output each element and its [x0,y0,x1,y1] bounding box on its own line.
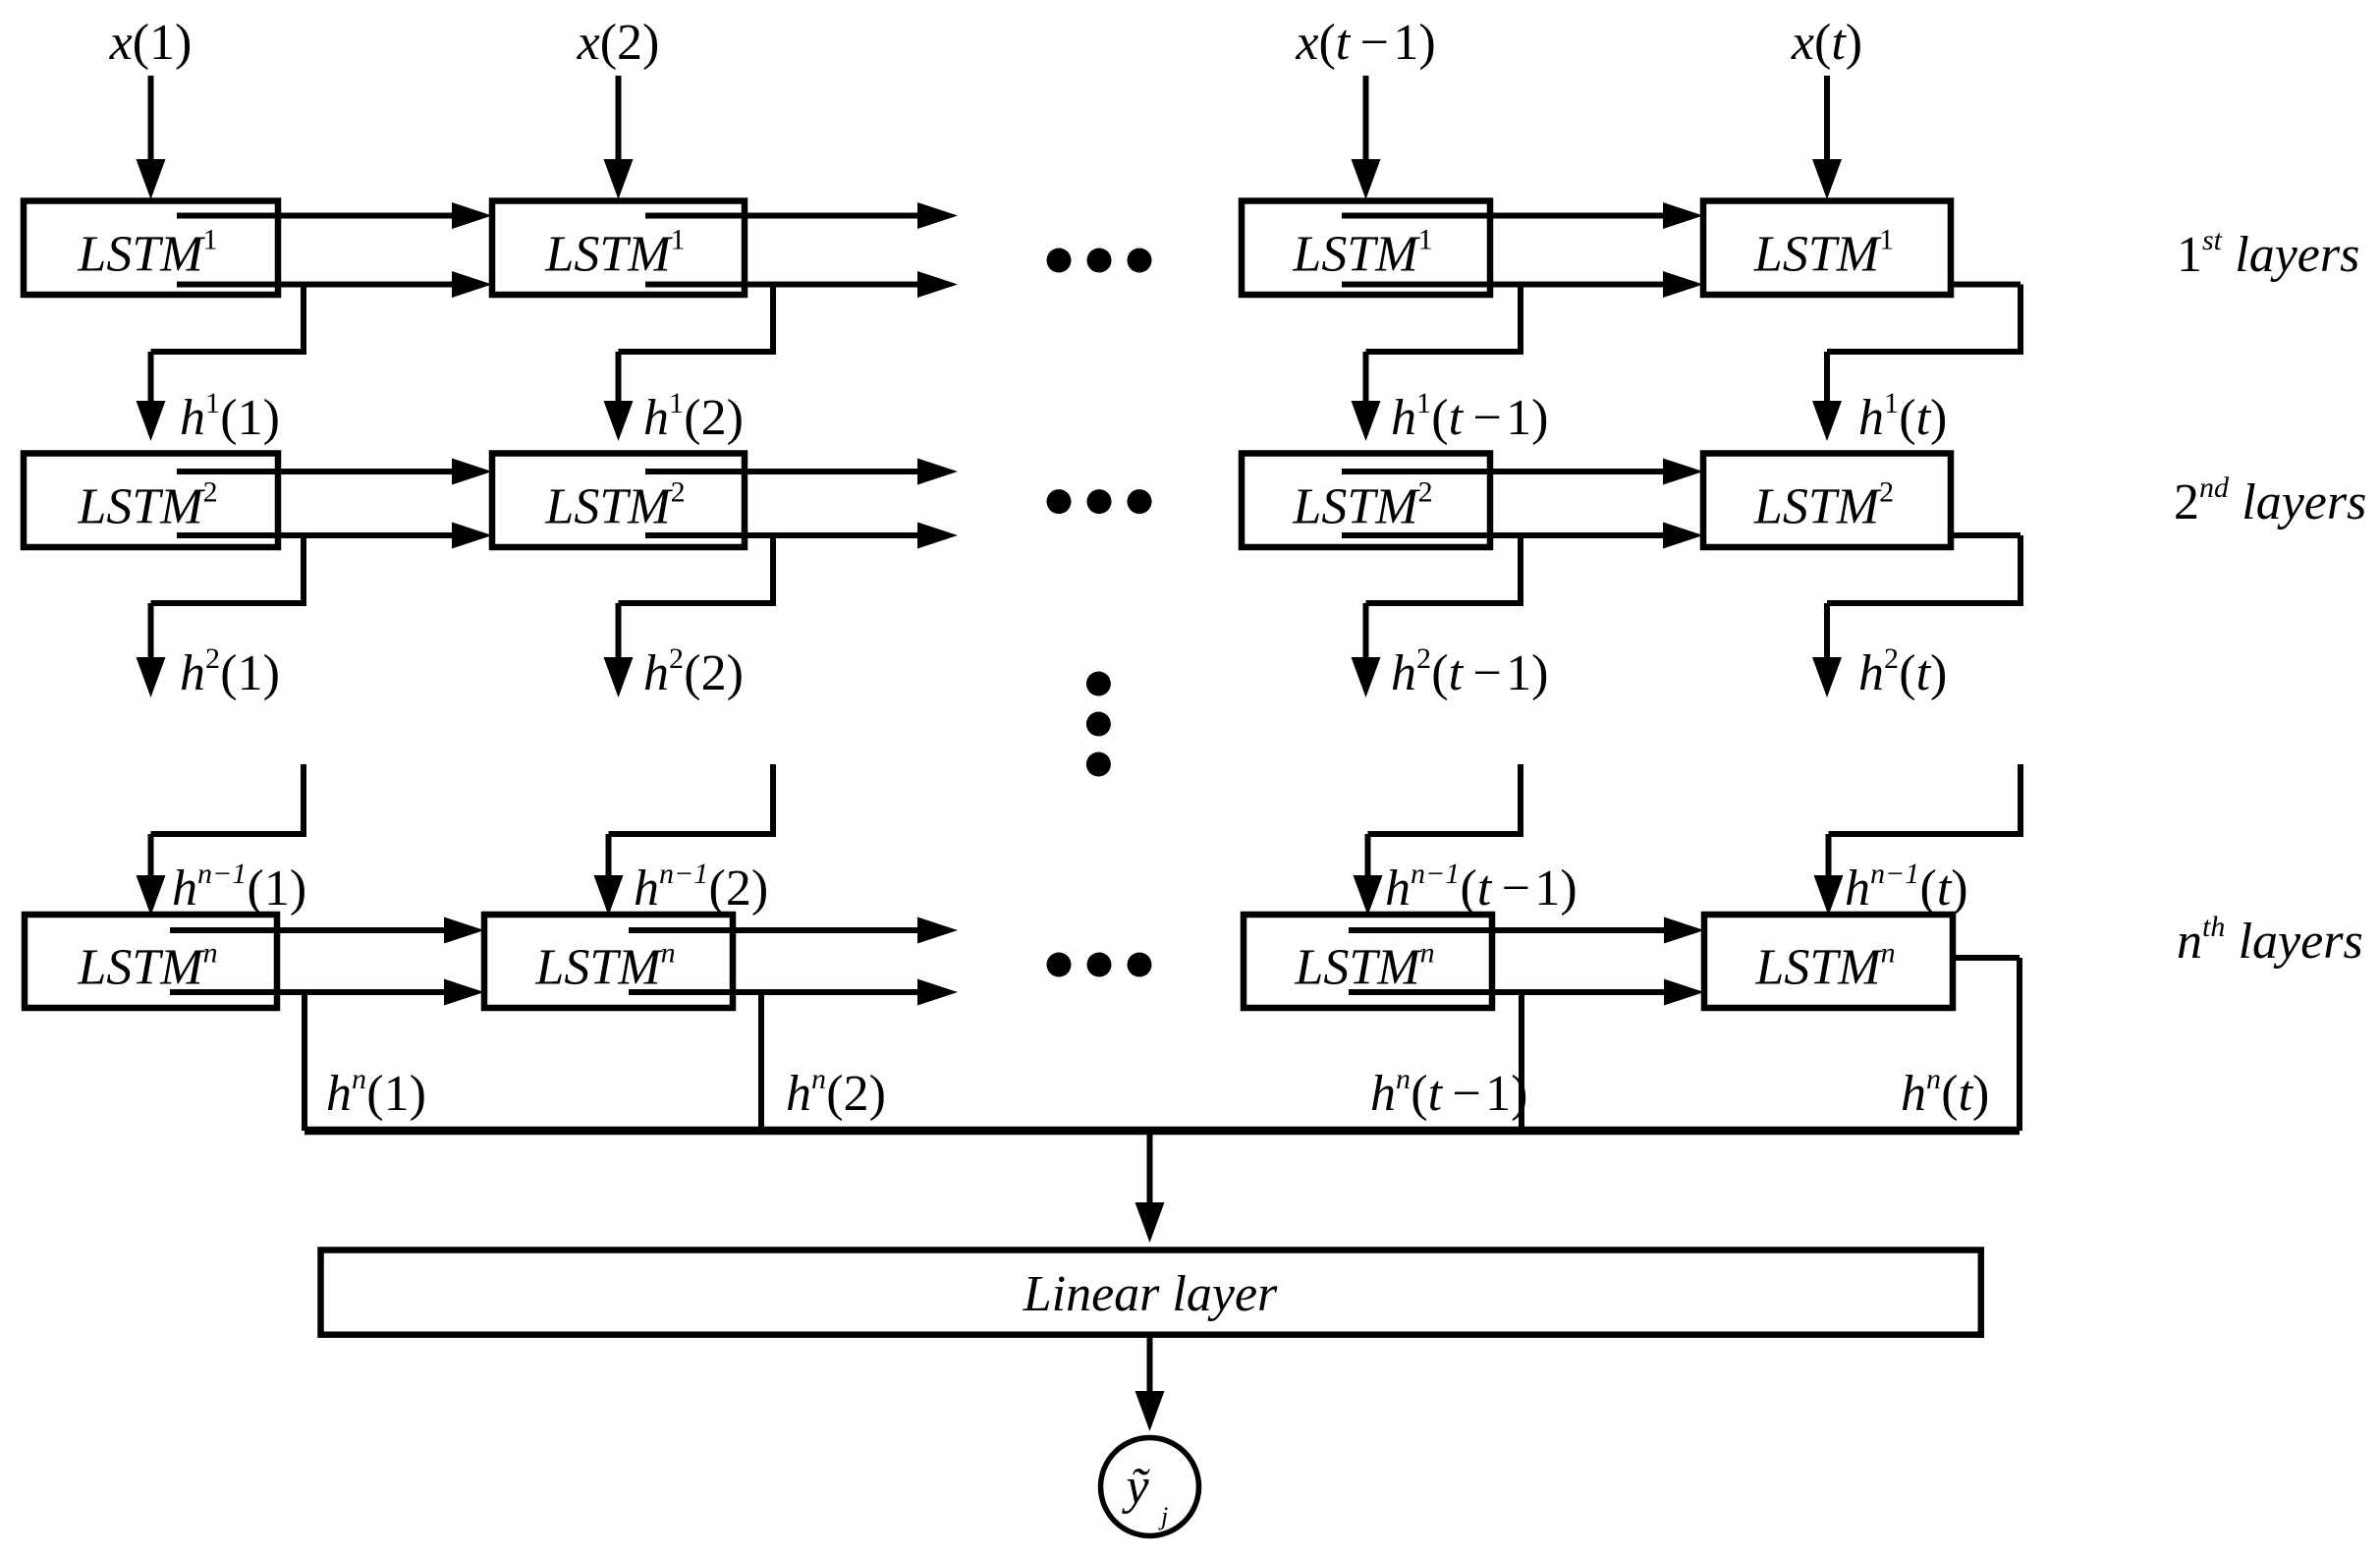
svg-text:h2 (t − 1): h2 (t − 1) [1391,642,1548,701]
arrow input x(1) [137,76,166,199]
wire h^n(t) drop to bus [1953,958,2020,1131]
label h2(1) [180,642,280,701]
LSTMn wire lower 1-2 [170,979,484,1006]
svg-text:LSTM1: LSTM1 [77,223,217,282]
svg-text:hn (2): hn (2) [786,1063,886,1122]
label h^n(t) [1901,1063,1989,1122]
LSTM2 box t=2 [492,454,745,548]
svg-text:LSTM1: LSTM1 [1753,223,1894,282]
arrow input x(t-1) [1352,76,1381,199]
LSTM2 wire upper 2-dots [645,459,958,485]
LSTM2 box t-1 [1242,454,1490,548]
LSTM2 wire upper 1-2 [177,459,492,485]
LSTMn box t-1 [1244,915,1492,1008]
label h2(t-1) [1391,642,1548,701]
label 1st layers [2177,224,2359,283]
LSTM2 wire upper 3-4 [1342,459,1703,485]
LSTMn wire lower 2-dots [629,979,958,1006]
LSTM1 wire upper 1-2 [177,202,492,229]
LSTM1 wire upper 3-4 [1342,202,1703,229]
LSTMn wire upper 3-4 [1349,917,1704,944]
LSTMn wire upper 2-dots [629,917,958,944]
ellipsis vertical [1086,672,1111,777]
arrow input x(2) [604,76,634,199]
svg-text:h1 (1): h1 (1) [180,387,280,446]
label h1(2) [643,387,744,446]
wire h2(t) output drop [1812,535,2020,697]
LSTMn box t [1704,915,1953,1008]
LSTMn wire lower 3-4 [1349,979,1704,1006]
svg-text:LSTMn: LSTMn [534,937,675,996]
svg-text:LSTM1: LSTM1 [1292,223,1432,282]
label h1(1) [180,387,280,446]
LSTM2 box t=1 [24,454,278,548]
wire h^n-1(t) input stub [1814,764,2021,916]
ellipsis row1 [1047,249,1152,273]
svg-text:ỹ: ỹ [1121,1459,1150,1515]
label h1(t-1) [1391,387,1548,446]
label h^n(t-1) [1370,1063,1527,1122]
wire h1(t) output drop [1812,285,2020,442]
label h2(t) [1858,642,1947,701]
LSTM1 wire upper 2-dots [645,202,958,229]
label h2(2) [643,642,744,701]
LSTM2 wire lower 2-dots [645,523,958,549]
linear layer box [321,1250,1981,1335]
svg-text:LSTMn: LSTMn [77,937,217,996]
label h^n-1(t-1) [1385,858,1577,917]
svg-text:h2 (1): h2 (1) [180,642,280,701]
label h^n(1) [326,1063,426,1122]
label h^n-1(2) [634,858,768,917]
svg-text:hn (1): hn (1) [326,1063,426,1122]
wire h1(1) output drop [137,285,304,442]
LSTMn box t=2 [484,915,733,1008]
label h1(t) [1858,387,1947,446]
LSTM1 wire lower 2-dots [645,271,958,298]
svg-text:x(t): x(t) [1791,15,1862,71]
bus collecting h^n outputs [304,1127,2020,1136]
ellipsis row n [1047,953,1152,977]
svg-text:x(t − 1): x(t − 1) [1295,15,1435,71]
LSTM2 wire lower 3-4 [1342,523,1703,549]
svg-text:h1 (t): h1 (t) [1858,387,1947,446]
arrow bus to linear layer [1135,1131,1165,1243]
LSTM1 box t [1703,201,1951,296]
svg-text:h2 (t): h2 (t) [1858,642,1947,701]
arrow linear layer to output [1135,1338,1165,1431]
LSTM1 wire lower 3-4 [1342,271,1703,298]
label x(2) [577,15,660,71]
label h^n-1(1) [172,858,306,917]
label x(t) [1791,15,1862,71]
wire h2(2) output drop [604,535,774,697]
wire h1(2) output drop [604,285,774,442]
svg-text:LSTM1: LSTM1 [544,223,685,282]
svg-text:LSTM2: LSTM2 [1753,475,1894,534]
svg-text:LSTM2: LSTM2 [1292,475,1432,534]
label x(t-1) [1295,15,1435,71]
label h^n-1(t) [1845,858,1968,917]
svg-text:LSTMn: LSTMn [1754,937,1895,996]
wire h^n-1(t-1) input stub [1354,764,1522,916]
svg-text:Linear layer: Linear layer [1023,1266,1278,1322]
LSTM1 box t=2 [492,201,745,296]
LSTMn box t=1 [25,915,277,1008]
wire h^n-1(1) input stub [137,764,304,916]
wire h^n(1) drop to bus [302,992,307,1131]
wire h^n-1(2) input stub [594,764,774,916]
svg-text:LSTM2: LSTM2 [77,475,217,534]
LSTM1 box t-1 [1242,201,1490,296]
svg-text:x(1): x(1) [109,15,193,71]
wire h^n(2) drop to bus [758,992,764,1131]
label 2nd layers [2174,472,2366,530]
LSTMn wire upper 1-2 [170,917,484,944]
svg-text:h1 (2): h1 (2) [643,387,744,446]
label nth layers [2177,911,2363,970]
output node circle [1101,1438,1199,1536]
LSTM1 wire lower 1-2 [177,271,492,298]
ellipsis row2 [1047,489,1152,514]
label x(1) [109,15,193,71]
wire h^n(t-1) drop to bus [1519,992,1524,1131]
label Linear layer [1023,1266,1278,1322]
svg-text:x(2): x(2) [577,15,660,71]
label h^n(2) [786,1063,886,1122]
arrow input x(t) [1812,76,1842,199]
svg-text:h2 (2): h2 (2) [643,642,744,701]
LSTM2 box t [1703,454,1951,548]
svg-text:hn (t − 1): hn (t − 1) [1370,1063,1527,1122]
label y~ j [1121,1459,1168,1530]
LSTM2 wire lower 1-2 [177,523,492,549]
svg-text:LSTM2: LSTM2 [544,475,685,534]
svg-text:LSTMn: LSTMn [1294,937,1434,996]
svg-text:hn (t): hn (t) [1901,1063,1989,1122]
wire h2(1) output drop [137,535,304,697]
svg-text:h1 (t − 1): h1 (t − 1) [1391,387,1548,446]
wire h1(t-1) output drop [1352,285,1522,442]
wire h2(t-1) output drop [1352,535,1522,697]
LSTM1 box t=1 [24,201,278,296]
